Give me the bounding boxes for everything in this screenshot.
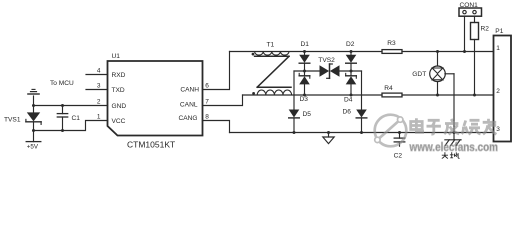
TVS diode TVS1 <box>26 106 41 131</box>
junction D3-netB <box>303 94 306 97</box>
wire net A from T1 to R3 <box>230 51 383 53</box>
TVS diode TVS2 bidirectional <box>320 64 340 78</box>
wire RXD pin 4 stub <box>86 74 108 76</box>
svg-text:T1: T1 <box>267 41 275 48</box>
label dadi earth <box>442 152 460 158</box>
label C2 <box>394 152 403 159</box>
pin name GND <box>112 103 127 110</box>
label TVS1 <box>4 117 21 124</box>
diode D4 <box>346 71 357 95</box>
junction R2-netB <box>473 94 476 97</box>
label TVS2 <box>318 57 335 64</box>
svg-text:D4: D4 <box>344 97 353 104</box>
svg-text:CANH: CANH <box>180 87 199 94</box>
pin number 6 <box>205 83 209 90</box>
svg-text:RXD: RXD <box>112 72 126 79</box>
svg-text:GDT: GDT <box>412 71 426 78</box>
junction C1-5V wire <box>61 129 64 132</box>
label R4 <box>384 85 393 92</box>
pin number 1 <box>97 113 101 120</box>
pin number 8 <box>205 114 209 121</box>
svg-text:D3: D3 <box>300 96 309 103</box>
svg-text:CANG: CANG <box>178 115 197 122</box>
label CTM1051KT <box>127 139 175 149</box>
junction D4-netB <box>350 94 353 97</box>
svg-text:R2: R2 <box>481 25 490 32</box>
svg-text:TVS2: TVS2 <box>318 57 335 64</box>
junction C1-GND wire <box>61 104 64 107</box>
svg-text:1: 1 <box>496 45 500 52</box>
wire ground rail <box>230 132 494 134</box>
pin name CANG <box>178 115 197 122</box>
label P1 <box>495 28 503 35</box>
pin number P1-3 <box>496 126 500 133</box>
label CON1 <box>460 2 479 9</box>
junction D2-netA <box>350 50 353 53</box>
gas discharge tube GDT <box>430 52 454 140</box>
junction GDT-rail <box>453 131 456 134</box>
junction TVS1-5V wire <box>32 129 35 132</box>
svg-text:7: 7 <box>205 99 209 106</box>
pin number 3 <box>97 82 101 89</box>
junction GDT-netA <box>436 50 439 53</box>
wire TVS2 row <box>294 70 362 72</box>
svg-text:3: 3 <box>97 82 101 89</box>
svg-text:D2: D2 <box>346 41 355 48</box>
pin number P1-1 <box>496 45 500 52</box>
watermark text dianzifashaoyou <box>411 118 497 134</box>
connector CON1 <box>459 8 482 52</box>
svg-text:U1: U1 <box>112 53 121 60</box>
diode D1 <box>299 52 310 72</box>
wire TXD pin 3 stub <box>86 89 108 91</box>
power +5V <box>26 131 41 151</box>
label D4 <box>344 97 353 104</box>
svg-text:R4: R4 <box>384 85 393 92</box>
svg-text:To MCU: To MCU <box>50 80 74 87</box>
svg-text:8: 8 <box>205 114 209 121</box>
pin number 2 <box>97 98 101 105</box>
svg-text:D5: D5 <box>303 111 312 118</box>
wire CANH pin 6 to T1 top <box>203 52 230 90</box>
svg-text:GND: GND <box>112 103 127 110</box>
svg-text:P1: P1 <box>495 28 503 35</box>
wire net B from R4 to P1 pin 2 <box>402 94 494 96</box>
svg-text:C2: C2 <box>394 152 403 159</box>
pin name TXD <box>112 87 125 94</box>
svg-text:CTM1051KT: CTM1051KT <box>127 139 175 149</box>
resistor R2 <box>471 23 479 40</box>
junction D1-netA <box>303 50 306 53</box>
label D2 <box>346 41 355 48</box>
label D1 <box>301 41 310 48</box>
svg-text:2: 2 <box>496 88 500 95</box>
diode D2 <box>346 52 357 72</box>
label R3 <box>387 40 396 47</box>
svg-text:www.elecfans.com: www.elecfans.com <box>409 140 498 154</box>
junction GDT-netB <box>436 94 439 97</box>
svg-text:1: 1 <box>97 113 101 120</box>
wire R2 to net B <box>474 40 476 96</box>
junction D1-TVS2 <box>303 70 306 73</box>
watermark logo circle <box>375 115 407 147</box>
label D6 <box>343 109 352 116</box>
svg-text:3: 3 <box>496 126 500 133</box>
pin name VCC <box>112 118 126 125</box>
pin number 7 <box>205 99 209 106</box>
capacitor C1 <box>57 106 67 131</box>
junction D6-rail <box>360 131 363 134</box>
wire net B from T1 to R4 <box>243 94 383 96</box>
pin name CANH <box>180 87 199 94</box>
svg-text:TVS1: TVS1 <box>4 117 21 124</box>
pin number P1-2 <box>496 88 500 95</box>
junction D5-rail <box>293 131 296 134</box>
label C1 <box>72 115 81 122</box>
svg-text:CON1: CON1 <box>460 2 479 9</box>
capacitor C2 <box>394 133 405 147</box>
svg-text:D1: D1 <box>301 41 310 48</box>
wire net A from R3 to P1 pin 1 <box>402 51 494 53</box>
junction C2-rail <box>398 131 401 134</box>
op-amp U1 CTM1051KT transceiver body <box>108 61 203 136</box>
diode D5 <box>289 71 300 133</box>
label D3 <box>300 96 309 103</box>
svg-text:CANL: CANL <box>180 102 198 109</box>
svg-text:+5V: +5V <box>27 144 39 151</box>
node To MCU label <box>50 80 74 87</box>
ground (chassis earth dadi) <box>445 140 461 145</box>
svg-text:R3: R3 <box>387 40 396 47</box>
wire CANL pin 7 to T1 bottom <box>203 95 243 106</box>
diode D3 <box>299 71 310 95</box>
svg-text:6: 6 <box>205 83 209 90</box>
diode D6 <box>356 71 367 133</box>
inductor T1 common-mode choke <box>252 52 292 96</box>
wire CANG pin 8 to ground rail <box>203 121 230 133</box>
svg-text:TXD: TXD <box>112 87 125 94</box>
resistor R4 <box>382 93 402 97</box>
svg-text:D6: D6 <box>343 109 352 116</box>
wire GND pin 2 net <box>34 105 108 107</box>
wire VCC pin 1 to +5V rail <box>34 121 108 131</box>
svg-text:2: 2 <box>97 98 101 105</box>
resistor R3 <box>382 50 402 54</box>
connector P1 <box>494 36 512 142</box>
watermark text www.elecfans.com <box>409 140 498 154</box>
label U1 <box>112 53 121 60</box>
junction TVS1-GND wire <box>32 104 35 107</box>
label D5 <box>303 111 312 118</box>
svg-text:C1: C1 <box>72 115 81 122</box>
pin number 4 <box>97 67 101 74</box>
pin name CANL <box>180 102 198 109</box>
ground (signal ground triangle on rail) <box>323 131 334 144</box>
label GDT <box>412 71 426 78</box>
junction D2-TVS2 <box>350 70 353 73</box>
svg-text:VCC: VCC <box>112 118 126 125</box>
label R2 <box>481 25 490 32</box>
pin name RXD <box>112 72 126 79</box>
svg-text:4: 4 <box>97 67 101 74</box>
ground GND1 (inverted earth above GND wire) <box>28 89 39 105</box>
label T1 <box>267 41 275 48</box>
junction CON1-netA <box>463 50 466 53</box>
